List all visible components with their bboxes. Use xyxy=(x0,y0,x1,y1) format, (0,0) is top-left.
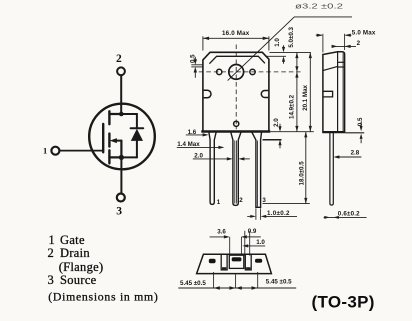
side view tab cross lines xyxy=(338,61,345,63)
svg-text:20.1 Max: 20.1 Max xyxy=(302,84,309,110)
wire source xyxy=(120,157,122,193)
dim 16.0 Max arrows xyxy=(203,37,269,40)
slot right mark xyxy=(246,267,250,270)
centerline horizontal dashed xyxy=(199,71,301,73)
side view inner right line xyxy=(342,53,344,132)
side view tab line xyxy=(337,52,339,132)
bottom view slot right xyxy=(245,254,251,270)
side view lead xyxy=(330,133,333,205)
lead 2 shading lines xyxy=(234,141,236,204)
svg-text:1: 1 xyxy=(49,233,56,247)
dim 5.0 Max extension lines xyxy=(316,34,352,53)
dim 0.5 left ticks xyxy=(191,57,203,78)
svg-text:2.8: 2.8 xyxy=(351,150,360,157)
dim 1.0 arrows xyxy=(283,45,285,64)
lead 3 front view xyxy=(252,132,262,208)
svg-text:1.0±0.2: 1.0±0.2 xyxy=(267,210,290,217)
svg-text:1.0: 1.0 xyxy=(256,239,265,246)
wire drain xyxy=(120,75,122,114)
svg-text:2.0: 2.0 xyxy=(273,118,280,127)
hole leader line xyxy=(228,17,352,81)
svg-text:2: 2 xyxy=(357,40,361,47)
bottom edge extension right xyxy=(345,132,364,134)
mounting hole xyxy=(229,65,244,80)
bottom view center box xyxy=(229,255,244,268)
svg-text:Drain: Drain xyxy=(60,246,90,260)
svg-text:2.0: 2.0 xyxy=(194,152,203,159)
side view notch xyxy=(323,91,333,97)
terminal 3 (source) circle xyxy=(117,194,125,202)
dim 1.0+0.2 extension lines xyxy=(247,208,297,220)
lead 3 shading line xyxy=(257,141,259,207)
extension lines 0.9 xyxy=(241,231,249,256)
lead 2 section xyxy=(232,257,242,261)
svg-text:0.5: 0.5 xyxy=(357,117,364,126)
small hole bottom xyxy=(234,121,239,126)
svg-text:18.0±0.5: 18.0±0.5 xyxy=(299,161,306,186)
side view bottom edge thick xyxy=(322,131,345,133)
side view outline xyxy=(323,52,345,132)
svg-text:16.0 Max: 16.0 Max xyxy=(222,30,250,37)
svg-text:0.9: 0.9 xyxy=(248,228,257,235)
diode D1 triangle xyxy=(131,129,143,141)
terminal 2 (drain) circle xyxy=(117,67,125,75)
bottom view outline xyxy=(197,254,272,273)
svg-text:1: 1 xyxy=(43,146,47,156)
dim 16.0 Max extension lines xyxy=(202,36,204,50)
legend text block xyxy=(48,233,159,304)
lead 1 section xyxy=(209,259,216,263)
svg-text:14.9±0.2: 14.9±0.2 xyxy=(289,94,296,119)
small hole left xyxy=(217,69,222,74)
dim 18.0+0.5 line xyxy=(305,132,307,204)
wire drain stub to channel xyxy=(109,113,121,115)
transistor Q1 (N-ch MOSFET symbol) body circle xyxy=(89,104,155,170)
svg-text:Gate: Gate xyxy=(60,233,85,247)
channel dash middle xyxy=(108,134,110,147)
wire body stub xyxy=(115,140,122,142)
dim 14.9+0.2 line xyxy=(296,72,298,132)
dim 5.0 Max arrows xyxy=(317,34,351,37)
svg-text:2: 2 xyxy=(48,246,55,260)
lead tip extension line xyxy=(263,203,310,205)
dim 5.45 line xyxy=(178,287,296,289)
svg-text:1: 1 xyxy=(217,199,221,206)
package inner top mold line xyxy=(209,56,265,63)
dim 2 tab line xyxy=(332,45,357,47)
svg-text:(Dimensions in mm): (Dimensions in mm) xyxy=(48,289,158,303)
dim 5.45 arrows xyxy=(214,286,258,289)
svg-text:3: 3 xyxy=(262,197,266,204)
dim 5.45 extension lines xyxy=(214,272,258,288)
shoulder extension line right xyxy=(263,139,282,141)
wire body to source xyxy=(120,141,122,158)
left side notch xyxy=(204,90,211,98)
svg-text:0.5: 0.5 xyxy=(190,54,197,63)
dim 0.5 arrows xyxy=(194,59,197,72)
svg-text:2: 2 xyxy=(116,53,122,65)
wire source stub xyxy=(109,156,121,158)
lead 3 section xyxy=(255,259,262,263)
svg-text:1.0: 1.0 xyxy=(274,38,281,47)
svg-text:5.45 ±0.5: 5.45 ±0.5 xyxy=(180,280,206,287)
wire gate xyxy=(59,150,103,152)
package bottom edge thick xyxy=(201,130,270,132)
bottom view slot left xyxy=(221,254,227,270)
side view inner slant xyxy=(323,66,338,70)
svg-text:5.45 ±0.5: 5.45 ±0.5 xyxy=(266,279,292,286)
junction drain dot xyxy=(119,112,124,117)
slot left mark xyxy=(222,267,226,270)
svg-text:0.6±0.2: 0.6±0.2 xyxy=(338,211,360,218)
dim 5.0+0.3 line xyxy=(296,52,298,72)
wire drain to diode cathode xyxy=(121,114,137,128)
junction source dot xyxy=(119,155,124,160)
terminal 1 (gate) circle xyxy=(51,147,59,155)
body arrow (substrate) xyxy=(110,138,117,143)
right side notch xyxy=(261,91,268,98)
svg-text:2: 2 xyxy=(239,197,243,204)
dim 20.1 Max line xyxy=(309,52,311,131)
svg-text:3: 3 xyxy=(116,205,122,217)
lead 2 front view xyxy=(231,132,242,206)
svg-text:5.0 Max: 5.0 Max xyxy=(352,30,376,37)
package body outline front view xyxy=(203,52,269,131)
centerline vertical dashed xyxy=(235,45,237,130)
diode D1 cathode bar xyxy=(131,127,144,129)
svg-text:5.0±0.3: 5.0±0.3 xyxy=(288,26,295,47)
svg-text:(Flange): (Flange) xyxy=(59,260,104,274)
channel dash bottom xyxy=(108,150,110,163)
wire diode anode xyxy=(136,141,138,158)
small hole right xyxy=(250,69,255,74)
wire anode to source node xyxy=(121,156,136,158)
svg-text:3.6: 3.6 xyxy=(217,229,226,236)
gate electrode bar xyxy=(102,124,104,152)
svg-text:3: 3 xyxy=(48,273,55,287)
dim 16.0 Max line xyxy=(203,37,269,39)
channel dash top xyxy=(108,111,110,124)
svg-text:ø3.2 ±0.2: ø3.2 ±0.2 xyxy=(295,2,343,11)
lead 1 front view xyxy=(209,132,217,205)
dim 0.5 side arrows xyxy=(360,122,362,143)
svg-text:(TO-3P): (TO-3P) xyxy=(312,292,375,311)
svg-text:Source: Source xyxy=(60,273,97,287)
dim 2.0 right arrows xyxy=(279,124,281,148)
right side extension lines xyxy=(265,52,314,131)
